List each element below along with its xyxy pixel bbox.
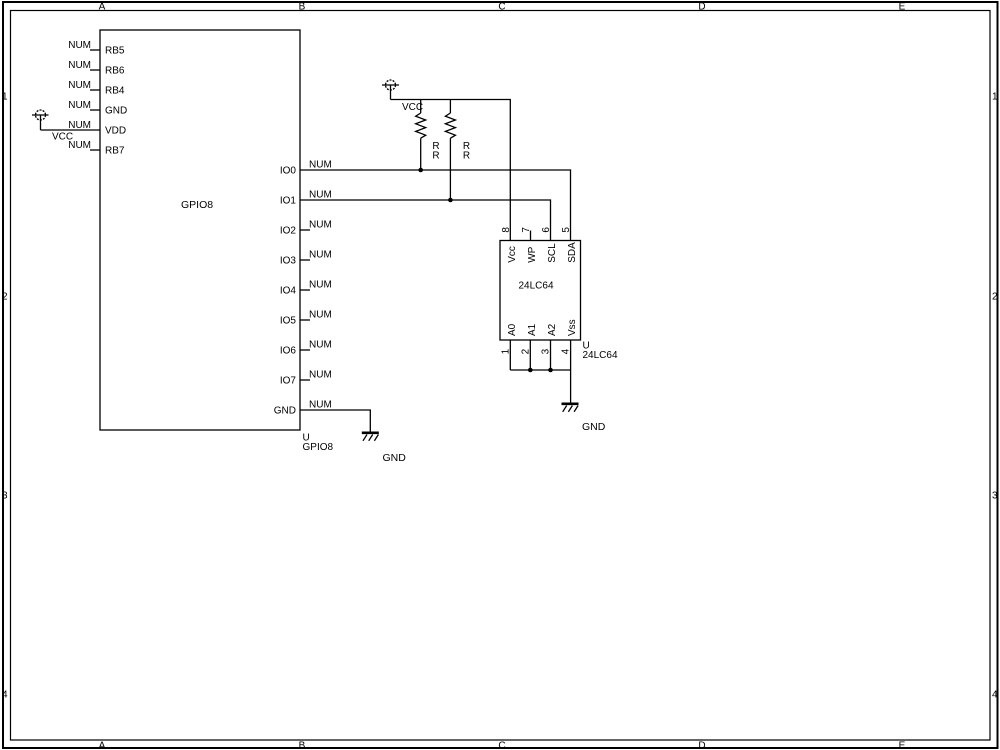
pin IO4 stub xyxy=(300,289,310,291)
svg-text:A1: A1 xyxy=(527,323,538,336)
svg-text:4: 4 xyxy=(2,689,8,700)
svg-text:2: 2 xyxy=(2,291,8,302)
svg-text:SDA: SDA xyxy=(567,242,578,263)
svg-text:Vss: Vss xyxy=(567,319,578,336)
svg-text:NUM: NUM xyxy=(309,250,332,261)
IC U 24LC64 body xyxy=(500,241,581,341)
svg-text:C: C xyxy=(498,2,505,13)
svg-text:RB7: RB7 xyxy=(105,146,125,157)
svg-text:NUM: NUM xyxy=(309,280,332,291)
svg-text:IO3: IO3 xyxy=(280,256,297,267)
svg-text:IO4: IO4 xyxy=(280,286,297,297)
wire IO1 to SCL xyxy=(300,200,551,241)
svg-text:3: 3 xyxy=(540,348,551,354)
svg-text:A: A xyxy=(99,741,106,750)
svg-text:IO0: IO0 xyxy=(280,166,297,177)
svg-text:NUM: NUM xyxy=(68,40,91,51)
pin GND stub (GPIO8 left) xyxy=(90,109,100,111)
svg-text:1: 1 xyxy=(2,91,8,102)
svg-text:VCC: VCC xyxy=(402,102,423,113)
svg-text:RB4: RB4 xyxy=(105,86,125,97)
pin RB6 stub xyxy=(90,69,100,71)
svg-text:D: D xyxy=(698,2,705,13)
svg-text:RB5: RB5 xyxy=(105,46,125,57)
svg-text:IO1: IO1 xyxy=(280,196,297,207)
ground symbol (24LC64) xyxy=(562,404,579,412)
svg-text:A: A xyxy=(99,2,106,13)
pin 7 WP stub xyxy=(530,231,532,241)
svg-text:Vcc: Vcc xyxy=(507,246,518,263)
svg-text:24LC64: 24LC64 xyxy=(583,350,618,361)
svg-text:IO5: IO5 xyxy=(280,316,297,327)
ground symbol (GPIO8) xyxy=(362,433,379,441)
svg-text:NUM: NUM xyxy=(309,220,332,231)
IC U GPIO8 body xyxy=(100,30,300,430)
svg-text:GND: GND xyxy=(105,106,127,117)
pin 3 wire down xyxy=(550,340,552,370)
pin RB5 stub xyxy=(90,49,100,51)
pin IO2 stub xyxy=(300,229,310,231)
svg-text:R: R xyxy=(463,151,470,162)
pin 4 wire down xyxy=(570,340,572,370)
svg-text:NUM: NUM xyxy=(309,340,332,351)
svg-text:2: 2 xyxy=(992,291,998,302)
svg-text:GPIO8: GPIO8 xyxy=(303,442,334,453)
svg-text:GND: GND xyxy=(383,452,407,464)
svg-text:D: D xyxy=(698,741,705,750)
svg-text:NUM: NUM xyxy=(309,160,332,171)
wire VCC to VDD pin xyxy=(41,129,101,131)
svg-text:SCL: SCL xyxy=(547,243,558,263)
svg-text:NUM: NUM xyxy=(68,60,91,71)
wire VCC rail to pin 8 Vcc xyxy=(391,100,511,241)
svg-text:E: E xyxy=(899,741,906,750)
svg-text:24LC64: 24LC64 xyxy=(518,281,553,292)
junction dot R2/IO1 xyxy=(448,198,453,203)
svg-text:E: E xyxy=(899,2,906,13)
svg-text:4: 4 xyxy=(560,348,571,354)
VCC power symbol (left) xyxy=(32,110,49,130)
svg-text:VCC: VCC xyxy=(52,132,73,143)
pin 2 wire down xyxy=(529,340,531,370)
svg-text:5: 5 xyxy=(561,227,572,233)
wire ground bus A0-A1-A2-Vss xyxy=(510,369,570,371)
wire GND pin to ground xyxy=(300,410,370,432)
wire IO0 to SDA xyxy=(300,170,571,241)
svg-text:NUM: NUM xyxy=(309,190,332,201)
svg-text:GPIO8: GPIO8 xyxy=(181,199,213,211)
junction dot A1/bus xyxy=(528,368,533,373)
svg-text:6: 6 xyxy=(541,227,552,233)
pin RB7 stub xyxy=(90,149,100,151)
resistor R2 (pull-up on IO1/SCL) xyxy=(445,100,455,201)
svg-text:1: 1 xyxy=(992,91,998,102)
VCC power symbol (top middle) xyxy=(382,80,399,100)
svg-text:R: R xyxy=(432,151,439,162)
svg-text:GND: GND xyxy=(274,406,296,417)
svg-text:7: 7 xyxy=(521,227,532,233)
pin IO3 stub xyxy=(300,259,310,261)
svg-text:C: C xyxy=(498,741,505,750)
svg-text:NUM: NUM xyxy=(68,80,91,91)
svg-text:GND: GND xyxy=(582,421,606,433)
junction dot A2/bus xyxy=(548,368,553,373)
svg-text:NUM: NUM xyxy=(309,370,332,381)
svg-text:IO6: IO6 xyxy=(280,346,297,357)
junction dot R1/IO0 xyxy=(418,168,423,173)
svg-text:NUM: NUM xyxy=(309,400,332,411)
svg-text:WP: WP xyxy=(527,246,538,262)
svg-text:A0: A0 xyxy=(507,323,518,336)
svg-text:3: 3 xyxy=(992,490,998,501)
svg-text:8: 8 xyxy=(501,227,512,233)
svg-text:IO2: IO2 xyxy=(280,226,297,237)
svg-text:RB6: RB6 xyxy=(105,66,125,77)
svg-text:B: B xyxy=(299,2,306,13)
svg-text:IO7: IO7 xyxy=(280,376,297,387)
pin IO7 stub xyxy=(300,379,310,381)
svg-text:B: B xyxy=(299,741,306,750)
pin 1 wire down xyxy=(509,340,511,370)
svg-text:VDD: VDD xyxy=(105,126,126,137)
svg-text:3: 3 xyxy=(2,490,8,501)
pin IO6 stub xyxy=(300,349,310,351)
svg-text:NUM: NUM xyxy=(68,100,91,111)
svg-text:4: 4 xyxy=(992,689,998,700)
svg-text:NUM: NUM xyxy=(309,310,332,321)
svg-text:A2: A2 xyxy=(547,323,558,336)
resistor R1 (pull-up on IO0/SDA) xyxy=(416,100,426,171)
pin RB4 stub xyxy=(90,89,100,91)
pin IO5 stub xyxy=(300,319,310,321)
wire Vss bus to ground xyxy=(570,370,572,403)
